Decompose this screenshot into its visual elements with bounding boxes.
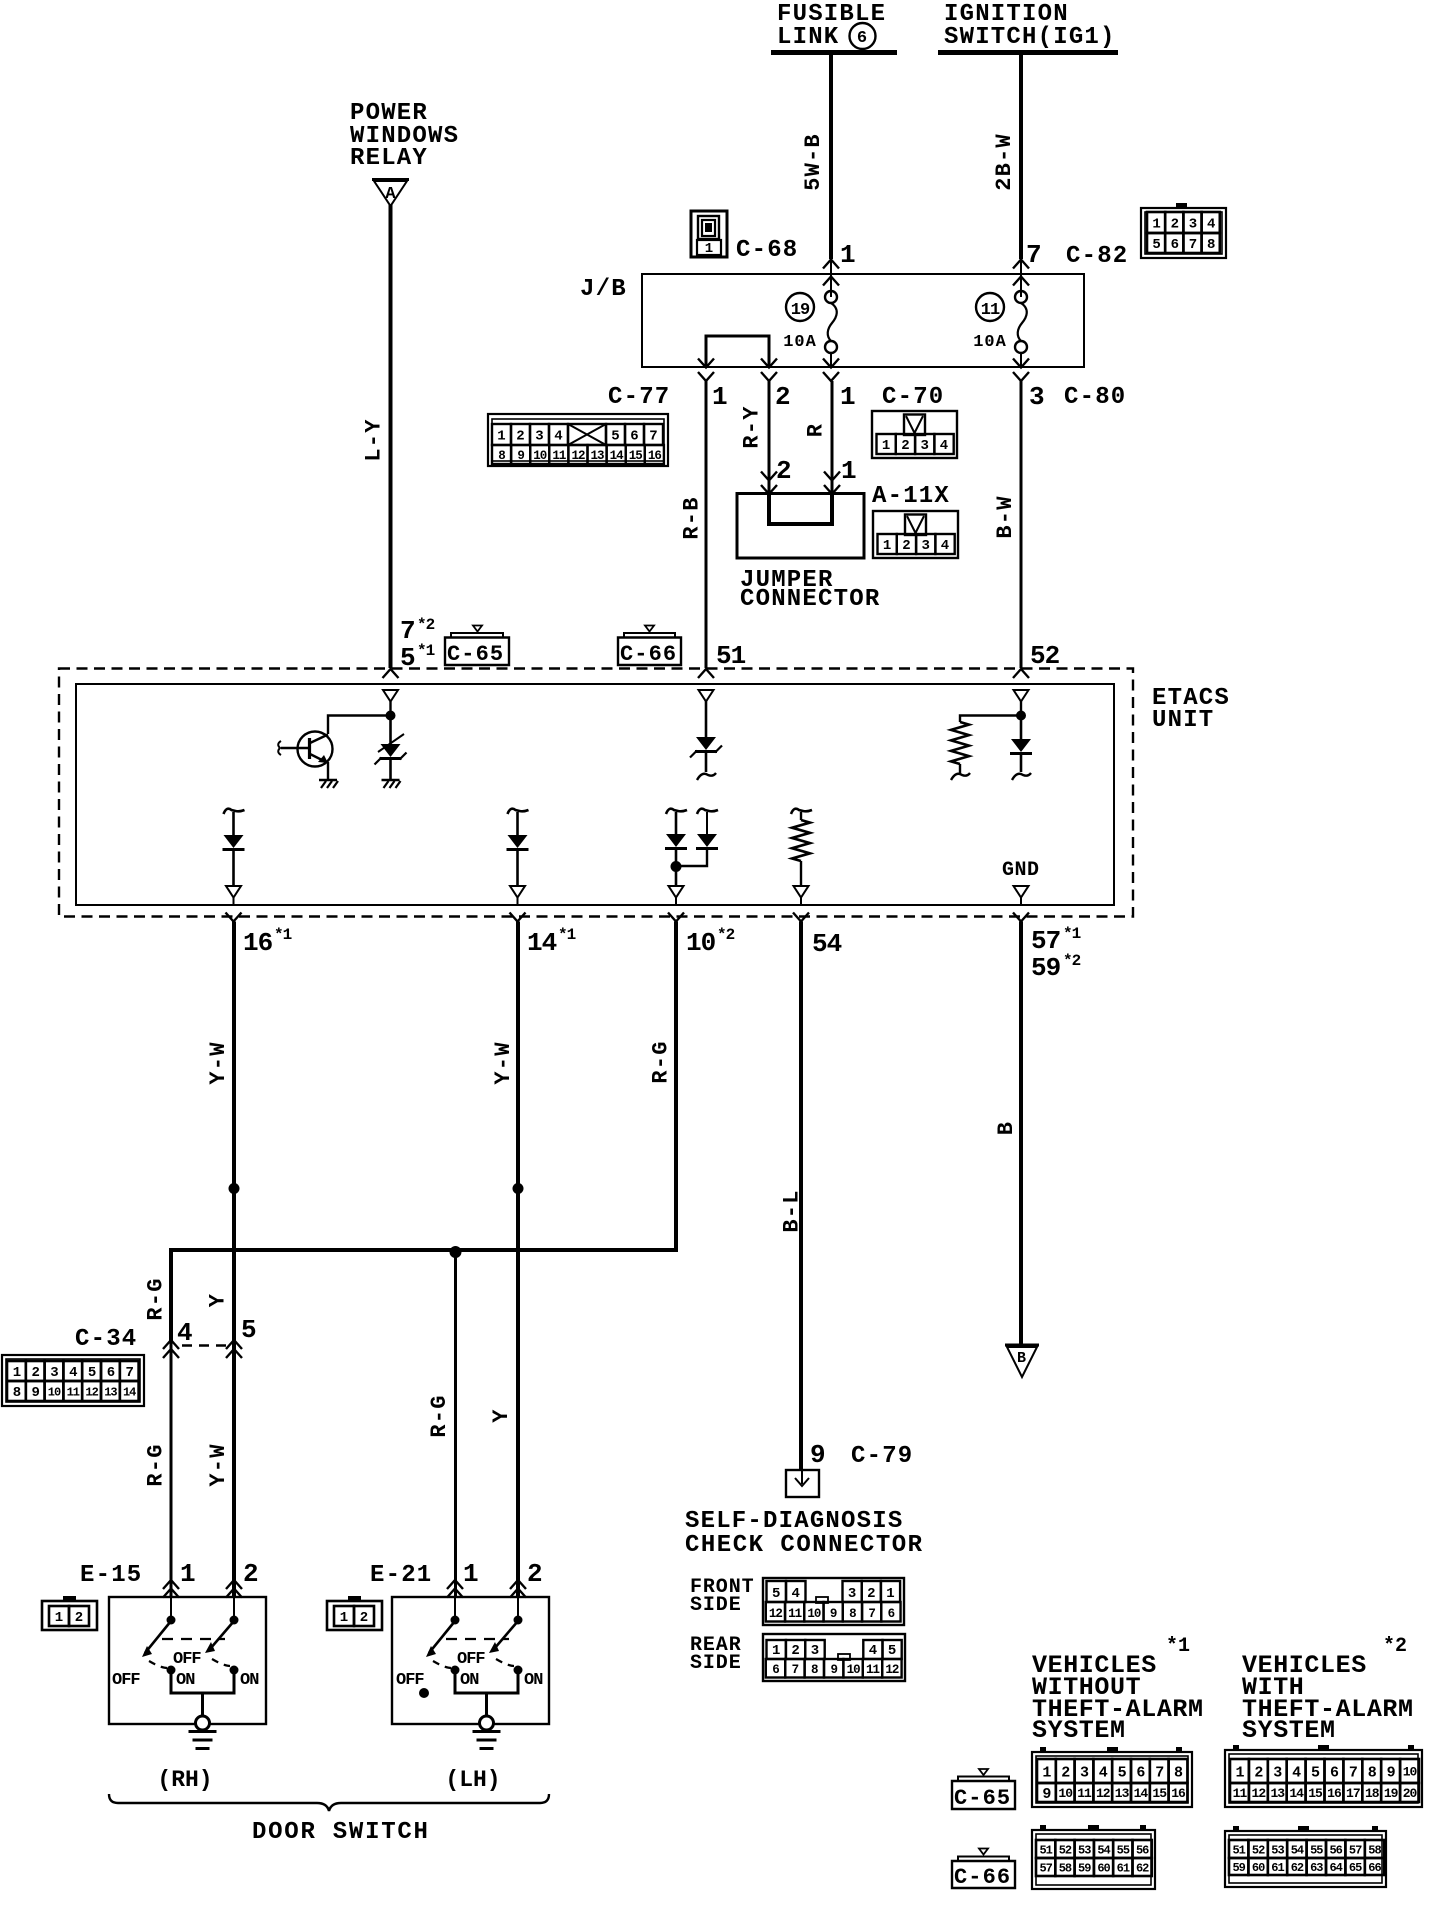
ETACS bottom exit fork x=233.5: [226, 913, 242, 922]
wire R-G from pin10 down and across: [171, 922, 676, 1342]
svg-text:2: 2: [902, 538, 910, 554]
svg-text:C-77: C-77: [608, 384, 670, 411]
zener diode at pin 5/7: [389, 716, 392, 745]
svg-text:12: 12: [571, 449, 585, 463]
svg-text:5: 5: [611, 429, 619, 445]
svg-text:ON: ON: [524, 1671, 543, 1690]
svg-text:OFF: OFF: [112, 1671, 140, 1690]
svg-text:5: 5: [88, 1365, 96, 1381]
svg-text:1: 1: [705, 241, 713, 257]
svg-text:4: 4: [177, 1318, 192, 1348]
svg-text:8: 8: [811, 1663, 818, 1677]
jumper connector pin 1 crossing (fork pair): [824, 472, 840, 481]
svg-text:3: 3: [1189, 217, 1197, 233]
connector C-65 *1 icon (16-pin): [1032, 1752, 1192, 1807]
svg-text:55: 55: [1310, 1843, 1323, 1857]
svg-text:R: R: [803, 423, 828, 437]
svg-text:52: 52: [1030, 641, 1060, 671]
svg-text:9: 9: [1042, 1786, 1051, 1803]
svg-text:16: 16: [243, 928, 273, 958]
svg-text:C-70: C-70: [882, 384, 944, 411]
connector crossing C-34 pin 4 (double fork): [163, 1340, 179, 1349]
svg-text:UNIT: UNIT: [1152, 707, 1214, 734]
svg-text:8: 8: [1174, 1764, 1183, 1781]
svg-text:12: 12: [1096, 1786, 1111, 1801]
svg-text:Y-W: Y-W: [491, 1041, 516, 1084]
svg-text:5: 5: [1311, 1764, 1320, 1781]
svg-text:*1: *1: [274, 926, 292, 944]
wire B pin57/59 to ground triangle B: [1019, 922, 1023, 1346]
svg-text:54: 54: [1291, 1843, 1304, 1857]
door switch LH (E-21): [392, 1597, 549, 1724]
wire Y-W pin16 to E-15 pin 2: [232, 922, 236, 1598]
svg-text:6: 6: [1136, 1764, 1145, 1781]
junction block J/B box: [642, 274, 1084, 367]
svg-text:4: 4: [554, 429, 562, 445]
svg-text:7: 7: [400, 616, 415, 646]
connector name box C-66 (mid): [618, 638, 681, 666]
fuse 19 10A in J/B: [825, 291, 837, 303]
svg-text:4: 4: [941, 538, 949, 554]
svg-text:1: 1: [883, 538, 891, 554]
svg-text:C-79: C-79: [851, 1443, 913, 1470]
svg-text:5: 5: [1118, 1764, 1127, 1781]
J/B exit fork pair at x=706: [698, 359, 714, 368]
svg-text:51: 51: [1039, 1843, 1052, 1857]
junction node at zener/transistor: [386, 711, 396, 721]
svg-text:62: 62: [1136, 1861, 1149, 1875]
svg-text:B-L: B-L: [779, 1189, 804, 1232]
svg-text:11: 11: [552, 449, 566, 463]
svg-text:3: 3: [921, 538, 929, 554]
svg-text:6: 6: [630, 429, 638, 445]
svg-text:1: 1: [1235, 1764, 1244, 1781]
svg-text:13: 13: [1270, 1786, 1285, 1801]
svg-text:A: A: [385, 185, 396, 204]
svg-text:SELF-DIAGNOSIS: SELF-DIAGNOSIS: [685, 1508, 903, 1535]
svg-text:1: 1: [840, 382, 855, 412]
svg-text:15: 15: [1152, 1786, 1167, 1801]
svg-text:OFF: OFF: [396, 1671, 424, 1690]
svg-text:13: 13: [1115, 1786, 1130, 1801]
svg-text:1: 1: [886, 1586, 894, 1602]
svg-text:10: 10: [807, 1607, 821, 1621]
svg-text:2: 2: [901, 438, 909, 454]
svg-text:1: 1: [463, 1559, 478, 1589]
svg-text:R-G: R-G: [427, 1394, 452, 1437]
ETACS internal pin triangle (GND pin 57/59): [1014, 886, 1029, 898]
svg-text:7: 7: [868, 1607, 875, 1621]
svg-text:*1: *1: [1166, 1635, 1190, 1658]
svg-text:3: 3: [848, 1586, 856, 1602]
svg-text:10A: 10A: [973, 333, 1007, 352]
ETACS internal pin triangle (pin 5/7): [383, 690, 398, 702]
svg-text:18: 18: [1365, 1786, 1380, 1801]
svg-text:53: 53: [1078, 1843, 1091, 1857]
svg-text:7: 7: [1349, 1764, 1357, 1781]
wire 2B-W from ignition switch to C-82: [1019, 55, 1023, 259]
wire R-G from C-34 pin 4 to E-15 pin 1: [170, 1341, 173, 1597]
svg-text:10A: 10A: [783, 333, 817, 352]
internal diode at pin 52: [1020, 716, 1023, 740]
svg-text:11: 11: [1077, 1786, 1092, 1801]
svg-text:B: B: [994, 1121, 1019, 1135]
ETACS internal pin triangle (pin 52): [1014, 690, 1029, 702]
J/B exit fork pair at x=1021: [1013, 359, 1029, 368]
svg-text:1: 1: [841, 456, 856, 486]
splice dot on Y-W wire 2: [513, 1183, 524, 1194]
junction node pin 52: [1016, 711, 1026, 721]
connector C-79 termination box: [786, 1470, 819, 1497]
wire B-L pin54 to C-79: [799, 922, 803, 1471]
svg-text:9: 9: [517, 449, 524, 463]
ETACS pin 5/7 entry fork: [383, 669, 399, 678]
svg-text:1: 1: [712, 382, 727, 412]
svg-text:B-W: B-W: [993, 495, 1018, 538]
svg-text:4: 4: [940, 438, 948, 454]
svg-text:7: 7: [792, 1663, 799, 1677]
off-page triangle A (power windows relay): [372, 178, 409, 181]
svg-text:9: 9: [1387, 1764, 1396, 1781]
svg-text:LINK: LINK: [777, 24, 839, 51]
svg-text:13: 13: [104, 1385, 117, 1399]
svg-text:1: 1: [840, 240, 855, 270]
svg-text:DOOR SWITCH: DOOR SWITCH: [252, 1819, 430, 1846]
svg-text:6: 6: [772, 1663, 779, 1677]
svg-text:4: 4: [869, 1643, 877, 1659]
svg-text:1: 1: [1042, 1764, 1051, 1781]
J/B internal bridge wire between C-77 pins 1 and 2: [706, 336, 769, 367]
svg-text:2: 2: [1254, 1764, 1263, 1781]
svg-text:13: 13: [591, 449, 605, 463]
svg-text:11: 11: [981, 301, 1000, 320]
svg-text:4: 4: [791, 1586, 799, 1602]
svg-text:15: 15: [629, 449, 643, 463]
svg-text:9: 9: [830, 1663, 837, 1677]
off-page triangle B (ground): [1005, 1344, 1039, 1347]
ETACS internal pin triangle (pin 16): [226, 886, 241, 898]
wire stub fuse19 to J/B bottom: [830, 353, 832, 367]
self-diagnosis connector front side: [763, 1578, 904, 1625]
svg-text:2B-W: 2B-W: [992, 133, 1017, 191]
svg-text:2: 2: [31, 1365, 39, 1381]
svg-text:63: 63: [1310, 1861, 1323, 1875]
svg-text:8: 8: [849, 1607, 856, 1621]
self-diagnosis connector rear side: [763, 1634, 905, 1681]
svg-text:7: 7: [649, 429, 657, 445]
fuse 11 10A in J/B: [1015, 291, 1027, 303]
svg-text:SIDE: SIDE: [690, 1594, 742, 1617]
svg-text:2: 2: [776, 456, 791, 486]
jumper connector pin 2 crossing (fork pair): [761, 472, 777, 481]
svg-text:2: 2: [1061, 1764, 1070, 1781]
svg-text:4: 4: [1207, 217, 1215, 233]
svg-text:C-82: C-82: [1066, 243, 1128, 270]
wire Y-W pin14 to E-21 pin 2: [516, 922, 520, 1598]
svg-text:1: 1: [340, 1610, 348, 1626]
svg-text:10: 10: [1403, 1765, 1418, 1780]
svg-text:12: 12: [769, 1607, 783, 1621]
svg-text:C-65: C-65: [954, 1786, 1011, 1811]
svg-text:16: 16: [1171, 1786, 1186, 1801]
wire R from J/B fuse 19 to jumper connector pin 1: [831, 381, 834, 493]
svg-text:5: 5: [241, 1315, 256, 1345]
svg-text:C-80: C-80: [1064, 384, 1126, 411]
dashed connector link C-34: [182, 1344, 226, 1346]
svg-text:6: 6: [857, 29, 867, 48]
svg-text:2: 2: [527, 1559, 542, 1589]
jumper connector box: [737, 494, 864, 559]
svg-text:1: 1: [497, 429, 505, 445]
svg-text:52: 52: [1252, 1843, 1265, 1857]
svg-text:62: 62: [1291, 1861, 1304, 1875]
connector name box C-65 (mid): [445, 638, 509, 666]
svg-text:11: 11: [67, 1385, 80, 1399]
svg-text:1: 1: [772, 1643, 780, 1659]
svg-text:Y-W: Y-W: [206, 1443, 231, 1486]
svg-text:SYSTEM: SYSTEM: [1242, 1716, 1336, 1745]
svg-text:53: 53: [1271, 1843, 1284, 1857]
wire L-Y from relay A to ETACS pin 5/7: [389, 205, 393, 668]
svg-text:19: 19: [791, 301, 810, 320]
internal double diode at pin 10: [666, 809, 687, 814]
svg-text:16: 16: [648, 449, 662, 463]
svg-text:6: 6: [1171, 237, 1179, 253]
svg-text:C-66: C-66: [954, 1865, 1011, 1890]
svg-text:2: 2: [867, 1586, 875, 1602]
svg-text:10: 10: [847, 1663, 861, 1677]
ETACS internal pin triangle (pin 14): [510, 886, 525, 898]
svg-text:SYSTEM: SYSTEM: [1032, 1716, 1126, 1745]
svg-text:1: 1: [13, 1365, 21, 1381]
transistor Q (door lock output): [298, 732, 333, 767]
svg-text:57: 57: [1039, 1861, 1052, 1875]
svg-text:(RH): (RH): [157, 1767, 212, 1793]
svg-text:66: 66: [1368, 1861, 1381, 1875]
svg-text:14: 14: [610, 449, 625, 463]
svg-text:56: 56: [1329, 1843, 1342, 1857]
svg-text:61: 61: [1117, 1861, 1130, 1875]
svg-text:4: 4: [1292, 1764, 1301, 1781]
svg-text:4: 4: [69, 1365, 77, 1381]
brace for door switches: [109, 1794, 549, 1811]
svg-text:65: 65: [1349, 1861, 1362, 1875]
ETACS unit inner box: [76, 684, 1114, 905]
svg-text:L-Y: L-Y: [361, 418, 386, 461]
connector C-70 icon (4-pin with key): [872, 411, 957, 458]
svg-text:4: 4: [1099, 1764, 1108, 1781]
ETACS pin 51 entry fork: [698, 669, 714, 678]
svg-text:7: 7: [125, 1365, 133, 1381]
svg-text:*2: *2: [717, 926, 735, 944]
internal diode at pin 16: [224, 809, 245, 814]
svg-text:2: 2: [791, 1643, 799, 1659]
svg-text:GND: GND: [1002, 859, 1040, 882]
J/B exit fork pair at x=831: [823, 359, 839, 368]
ETACS pin 52 entry fork: [1013, 669, 1029, 678]
zener diode at pin 51: [699, 690, 714, 702]
svg-text:CONNECTOR: CONNECTOR: [740, 586, 880, 613]
svg-text:64: 64: [1329, 1861, 1342, 1875]
connector crossing C-82 pin 7 (fork pair): [1020, 259, 1022, 297]
svg-text:ON: ON: [176, 1671, 195, 1690]
svg-text:60: 60: [1097, 1861, 1110, 1875]
svg-text:*1: *1: [558, 926, 576, 944]
svg-text:2: 2: [775, 382, 790, 412]
svg-text:R-Y: R-Y: [739, 405, 764, 448]
svg-text:8: 8: [1368, 1764, 1377, 1781]
svg-text:57: 57: [1349, 1843, 1362, 1857]
door switch RH (E-15): [109, 1597, 266, 1724]
svg-text:7: 7: [1155, 1764, 1163, 1781]
svg-text:8: 8: [498, 449, 505, 463]
svg-text:5: 5: [1152, 237, 1160, 253]
svg-text:58: 58: [1059, 1861, 1072, 1875]
connector crossing C-34 pin 5 (double fork): [226, 1340, 242, 1349]
svg-text:10: 10: [533, 449, 547, 463]
svg-text:3: 3: [50, 1365, 58, 1381]
splice dot on Y-W wire: [229, 1183, 240, 1194]
wire R-B from J/B to ETACS pin 51: [705, 381, 708, 668]
svg-text:11: 11: [866, 1663, 880, 1677]
svg-text:54: 54: [1097, 1843, 1110, 1857]
svg-text:(LH): (LH): [445, 1767, 500, 1793]
svg-text:10: 10: [48, 1385, 61, 1399]
svg-text:17: 17: [1346, 1786, 1360, 1801]
connector E-15 icon (2-pin): [42, 1601, 97, 1630]
svg-text:9: 9: [830, 1607, 837, 1621]
svg-text:*2: *2: [1063, 952, 1081, 970]
svg-text:*1: *1: [417, 642, 435, 660]
connector E-21 icon (2-pin): [327, 1601, 382, 1630]
svg-text:C-66: C-66: [620, 642, 677, 667]
wire R-G branch to E-21 pin 1: [454, 1252, 457, 1597]
svg-text:15: 15: [1308, 1786, 1323, 1801]
internal resistor at pin 54: [791, 809, 812, 814]
svg-text:R-G: R-G: [144, 1443, 169, 1486]
svg-text:12: 12: [885, 1663, 899, 1677]
internal resistor at pin 52: [960, 716, 1021, 723]
svg-text:6: 6: [888, 1607, 895, 1621]
svg-text:5: 5: [400, 643, 415, 673]
svg-text:57: 57: [1031, 926, 1060, 956]
svg-text:14: 14: [1134, 1786, 1149, 1801]
ETACS bottom exit fork x=801: [793, 913, 809, 922]
svg-text:59: 59: [1232, 1861, 1245, 1875]
J/B exit fork pair at x=769: [761, 359, 777, 368]
svg-text:55: 55: [1117, 1843, 1130, 1857]
svg-text:R-G: R-G: [648, 1040, 673, 1083]
connector C-66 *2 icon (51-66): [1225, 1831, 1386, 1887]
svg-text:7: 7: [1026, 240, 1041, 270]
svg-text:Y-W: Y-W: [206, 1041, 231, 1084]
svg-text:60: 60: [1252, 1861, 1265, 1875]
svg-text:2: 2: [1171, 217, 1179, 233]
svg-text:51: 51: [1232, 1843, 1245, 1857]
connector C-66 *1 icon (51-62): [1032, 1830, 1155, 1889]
svg-text:*1: *1: [1063, 925, 1081, 943]
svg-text:SIDE: SIDE: [690, 1652, 742, 1675]
svg-text:9: 9: [31, 1385, 39, 1401]
ETACS internal pin triangle (pin 54): [794, 886, 809, 898]
svg-text:59: 59: [1078, 1861, 1091, 1875]
svg-text:3: 3: [1029, 382, 1044, 412]
svg-text:OFF: OFF: [457, 1650, 485, 1669]
svg-text:8: 8: [1207, 237, 1215, 253]
svg-text:E-21: E-21: [370, 1562, 432, 1589]
svg-text:2: 2: [243, 1559, 258, 1589]
svg-text:58: 58: [1368, 1843, 1381, 1857]
svg-text:5: 5: [772, 1586, 780, 1602]
svg-text:3: 3: [811, 1643, 819, 1659]
svg-text:R-G: R-G: [143, 1277, 168, 1320]
svg-text:E-15: E-15: [80, 1562, 142, 1589]
svg-text:B: B: [1017, 1350, 1026, 1367]
svg-text:16: 16: [1327, 1786, 1342, 1801]
wire 5W-B from fusible link to C-68: [829, 55, 833, 259]
connector A-11X icon (4-pin with key): [873, 511, 958, 558]
ETACS bottom exit fork x=517.5: [510, 913, 526, 922]
svg-text:14: 14: [123, 1385, 136, 1399]
svg-text:9: 9: [810, 1440, 825, 1470]
svg-text:OFF: OFF: [173, 1650, 201, 1669]
ETACS bottom exit fork x=1021: [1013, 913, 1029, 922]
svg-text:6: 6: [1330, 1764, 1339, 1781]
connector C-77 icon (16-pin grid with key): [488, 414, 668, 466]
svg-text:Y: Y: [206, 1293, 231, 1307]
connector name box C-65 (legend): [952, 1781, 1015, 1809]
svg-text:R-B: R-B: [679, 496, 704, 539]
svg-text:RELAY: RELAY: [350, 145, 428, 172]
svg-text:59: 59: [1031, 953, 1061, 983]
svg-text:5: 5: [888, 1643, 896, 1659]
svg-text:52: 52: [1059, 1843, 1072, 1857]
chassis ground (zener): [382, 779, 400, 782]
svg-text:12: 12: [1252, 1786, 1267, 1801]
svg-text:3: 3: [920, 438, 928, 454]
svg-text:10: 10: [1058, 1786, 1073, 1801]
svg-text:ON: ON: [460, 1671, 479, 1690]
svg-text:10: 10: [686, 928, 716, 958]
internal diode at pin 14: [508, 809, 529, 814]
svg-text:5W-B: 5W-B: [801, 133, 826, 191]
svg-text:8: 8: [13, 1385, 21, 1401]
junction dot on R-G bus: [450, 1246, 462, 1258]
internal wire to transistor collector: [328, 716, 391, 735]
svg-text:51: 51: [716, 641, 746, 671]
svg-text:1: 1: [882, 438, 890, 454]
svg-text:*2: *2: [417, 616, 435, 634]
svg-text:7: 7: [1189, 237, 1197, 253]
svg-text:SWITCH(IG1): SWITCH(IG1): [944, 24, 1116, 51]
wire R-Y from J/B to jumper connector pin 2: [768, 381, 771, 493]
svg-text:3: 3: [1273, 1764, 1282, 1781]
svg-text:C-65: C-65: [447, 642, 504, 667]
svg-text:C-68: C-68: [736, 237, 798, 264]
svg-text:Y: Y: [489, 1408, 514, 1422]
svg-text:CHECK CONNECTOR: CHECK CONNECTOR: [685, 1532, 924, 1559]
svg-text:54: 54: [812, 929, 842, 959]
connector C-68 icon: [691, 211, 727, 257]
svg-text:1: 1: [1152, 217, 1160, 233]
ETACS unit dashed box: [59, 669, 1133, 917]
svg-text:11: 11: [788, 1607, 802, 1621]
ETACS bottom exit fork x=676: [668, 913, 684, 922]
svg-text:C-34: C-34: [75, 1326, 137, 1353]
svg-text:2: 2: [516, 429, 524, 445]
wire stub fuse11 to J/B bottom: [1020, 353, 1022, 367]
svg-text:ON: ON: [240, 1671, 259, 1690]
